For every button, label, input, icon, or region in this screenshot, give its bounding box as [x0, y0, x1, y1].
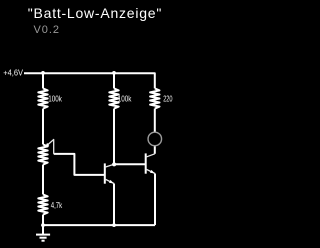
svg-text:100k: 100k — [48, 95, 62, 104]
svg-text:V0.2: V0.2 — [34, 24, 60, 36]
svg-text:"Batt-Low-Anzeige": "Batt-Low-Anzeige" — [28, 5, 162, 21]
svg-text:4,7k: 4,7k — [51, 201, 63, 210]
svg-text:220: 220 — [163, 95, 173, 104]
svg-text:100k: 100k — [118, 95, 132, 104]
svg-text:+4,6V: +4,6V — [3, 68, 23, 77]
